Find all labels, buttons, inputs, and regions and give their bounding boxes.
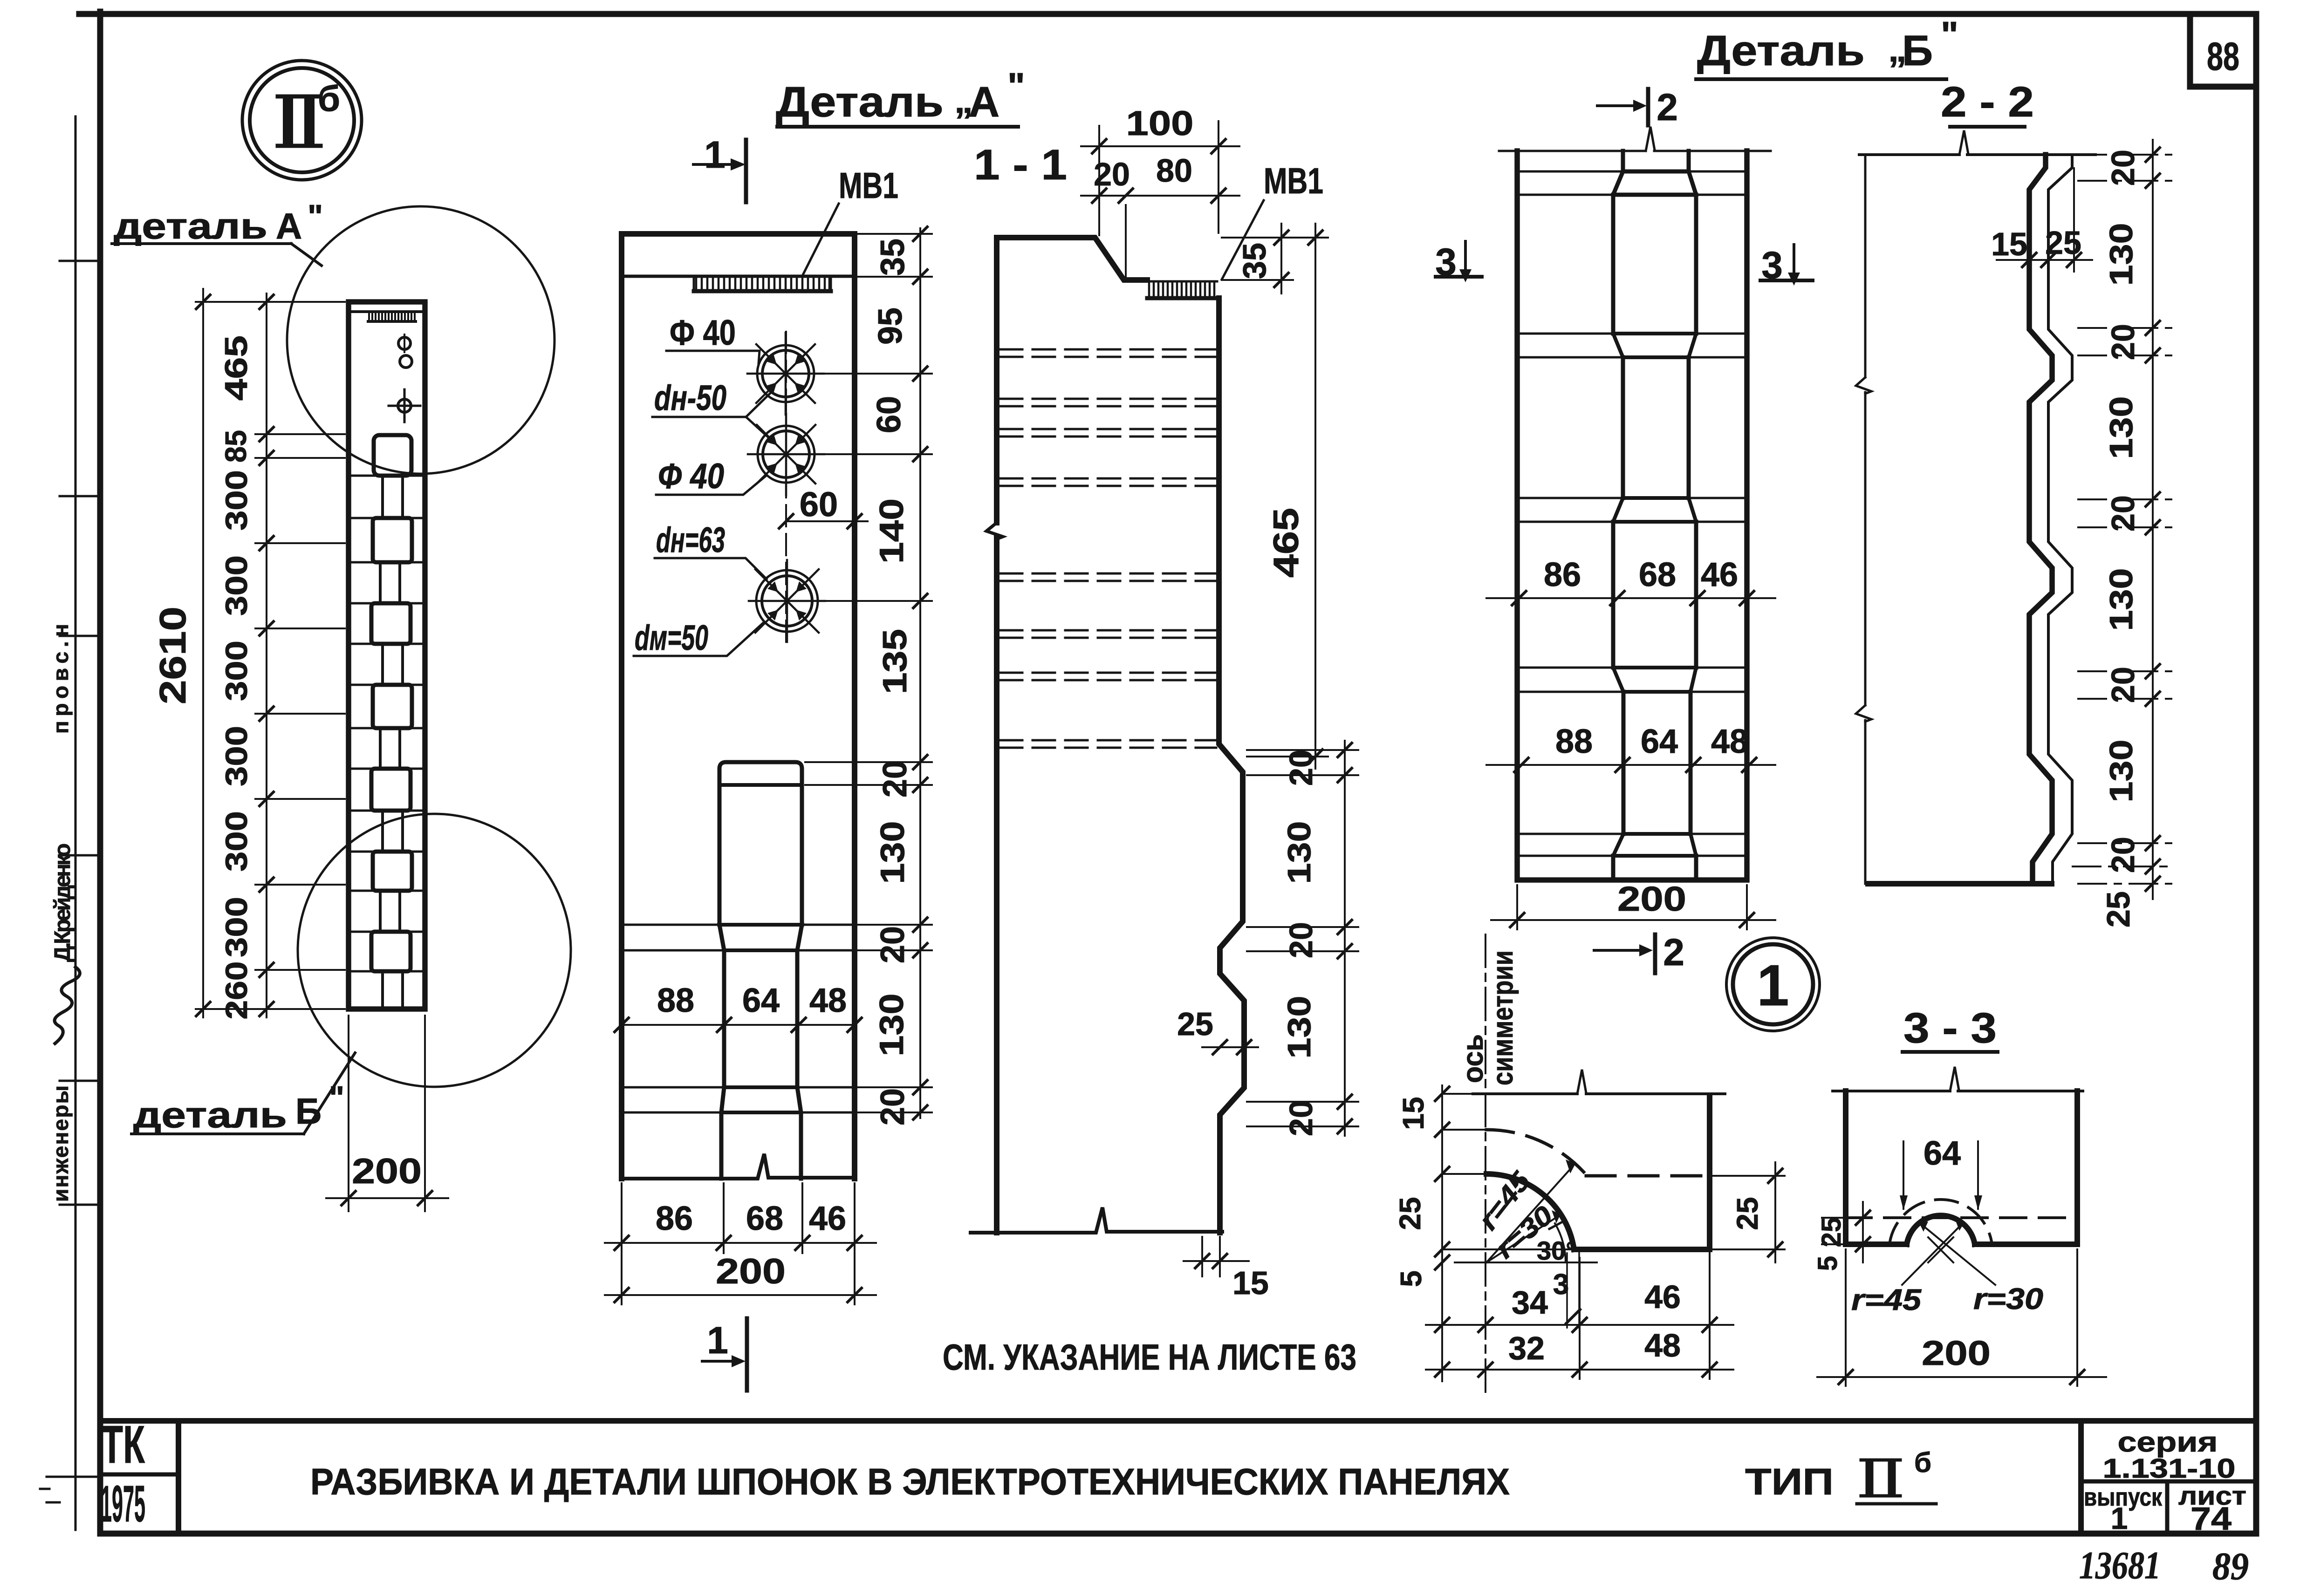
svg-text:15: 15 [1991, 226, 2027, 262]
dimension 60 hole offset [779, 485, 868, 528]
svg-text:300: 300 [219, 726, 253, 786]
svg-text:20: 20 [1094, 156, 1130, 192]
svg-text:80: 80 [1156, 152, 1192, 189]
node circle 1 [1726, 938, 1820, 1031]
svg-text:20: 20 [1283, 750, 1319, 786]
detail B key stubs and chamfers top [1613, 151, 1696, 195]
dimension 15 bottom [1184, 1237, 1269, 1301]
svg-text:Д.Крейденко: Д.Крейденко [50, 843, 75, 962]
svg-text:1: 1 [707, 1319, 728, 1362]
svg-text:20: 20 [2105, 667, 2141, 703]
svg-text:74: 74 [2190, 1501, 2232, 1537]
section 2-2 key profile inner line [2048, 155, 2072, 884]
svg-text:300: 300 [219, 641, 253, 701]
svg-text:88: 88 [1555, 723, 1593, 760]
svg-text:86: 86 [1544, 556, 1581, 593]
svg-text:15: 15 [1396, 1097, 1430, 1130]
svg-text:ТК: ТК [101, 1415, 145, 1474]
corner detail bottom dimension 32 48 [1426, 1327, 1733, 1377]
title block TK cell [100, 1415, 178, 1534]
svg-text:1.131-10: 1.131-10 [2103, 1453, 2236, 1484]
svg-text:Ф 40: Ф 40 [670, 313, 736, 353]
label деталь Б with leader [131, 1053, 355, 1135]
svg-text:": " [1941, 14, 1958, 55]
section 3-3 hidden dashed line [1846, 1216, 2077, 1219]
corner detail right dimension 25 [1712, 1162, 1785, 1262]
svg-text:15: 15 [1232, 1265, 1269, 1301]
svg-text:25: 25 [1393, 1197, 1427, 1230]
handwritten inventory number 13681 [2079, 1544, 2161, 1587]
svg-text:5: 5 [1394, 1270, 1428, 1287]
dimension extension lines right of detail A [805, 234, 932, 1112]
handwritten page number 89 [2212, 1545, 2249, 1588]
svg-text:200: 200 [1922, 1334, 1991, 1372]
svg-text:1: 1 [2111, 1501, 2128, 1535]
svg-text:130: 130 [2103, 568, 2139, 631]
svg-text:5: 5 [1813, 1256, 1843, 1271]
section 2-2 bottom edge [1868, 881, 2052, 887]
svg-text:ТИП: ТИП [1745, 1461, 1834, 1502]
svg-text:25: 25 [2045, 225, 2081, 261]
label dн=63 [655, 520, 767, 579]
svg-text:dн=63: dн=63 [656, 520, 725, 560]
svg-text:48: 48 [809, 982, 847, 1019]
section 3-3 top edge with break [1833, 1067, 2083, 1091]
corner detail key face arc r30 [1486, 1174, 1574, 1249]
left margin handwritten text ИНЖЕНЕРЫ [48, 1085, 73, 1202]
key row first rounded key [374, 435, 411, 476]
svg-text:МВ1: МВ1 [839, 165, 898, 206]
svg-text:60: 60 [870, 396, 908, 433]
section mark 1 top [693, 134, 746, 202]
section title 3-3 [1903, 1004, 1998, 1052]
corner detail horizontal ray and 30deg angle [1455, 1222, 1597, 1265]
corner detail hidden dashed edge [1586, 1174, 1710, 1178]
svg-text:48: 48 [1644, 1327, 1681, 1364]
panel elevation survey point symbol [389, 389, 420, 422]
left margin handwritten ПРОВЕРИЛ [48, 617, 73, 734]
sheet frame top border [79, 11, 2256, 17]
label MB1 with leader [802, 165, 898, 276]
label деталь А with leader [112, 198, 323, 266]
detail A dimension chain 35-95-60-140-135-20-130-20-130-20 [870, 227, 927, 1125]
overall dimension line 2610 [152, 289, 210, 1017]
svg-text:89: 89 [2212, 1545, 2249, 1588]
section 1-1 outline with rebate [971, 238, 1222, 1233]
svg-text:20: 20 [2105, 495, 2141, 532]
section mark 2 bottom [1594, 931, 1684, 974]
section 3-3 arc center cross [1928, 1237, 1953, 1262]
svg-text:64: 64 [1641, 723, 1678, 760]
svg-text:2: 2 [1663, 931, 1684, 974]
corner detail dimension 3 [1553, 1252, 1580, 1328]
corner detail radius ray r30 [1486, 1200, 1561, 1264]
dimension 465 section [1222, 224, 1328, 769]
svg-text:„: „ [954, 79, 973, 121]
section 1-1 hidden conduit lines [1000, 349, 1216, 748]
svg-text:200: 200 [716, 1252, 786, 1291]
detail B band lines [1517, 171, 1747, 856]
svg-text:130: 130 [1281, 996, 1317, 1059]
svg-text:200: 200 [352, 1152, 422, 1191]
svg-text:Деталь: Деталь [776, 78, 944, 126]
detail B key K4 narrow [1613, 692, 1696, 856]
title block series box [2081, 1421, 2256, 1537]
detail B dimension 88-64-48 [1486, 723, 1775, 772]
svg-text:1 - 1: 1 - 1 [974, 141, 1067, 189]
corner detail key face bottom edge [1574, 1247, 1710, 1252]
section mark 2 top [1597, 86, 1678, 129]
panel elevation outline [349, 302, 425, 1009]
detail A key outline [719, 762, 802, 1179]
corner detail bottom dimension 34 46 [1426, 1253, 1733, 1379]
sheet frame bottom border [100, 1531, 2256, 1537]
left margin signature scribble [55, 967, 80, 1044]
svg-text:25: 25 [1177, 1006, 1213, 1042]
svg-text:300: 300 [219, 897, 253, 957]
section 2-2 right dimension chain [2073, 140, 2171, 928]
key pattern row lines [349, 476, 425, 971]
detail B key K3 wide [1613, 522, 1696, 692]
svg-text:46: 46 [1644, 1279, 1681, 1315]
section title 1-1 [974, 141, 1067, 189]
svg-text:МВ1: МВ1 [1264, 160, 1323, 201]
sheet frame left border [97, 12, 103, 1534]
label Ф40 upper [666, 313, 760, 363]
detail B dimension 200 [1491, 880, 1775, 929]
symmetry axis line [1485, 934, 1486, 1393]
section 3-3 left dimensions 25 5 [1813, 1202, 1870, 1271]
detail B key K5 bottom stub [1613, 856, 1696, 880]
section mark 3 left [1435, 241, 1482, 283]
svg-text:25: 25 [1816, 1217, 1847, 1248]
svg-text:465: 465 [1266, 508, 1306, 578]
svg-text:": " [1007, 65, 1025, 107]
detail B key K1 wide [1613, 195, 1696, 357]
symmetry axis label [1457, 950, 1519, 1085]
svg-text:130: 130 [2103, 396, 2139, 459]
detail B key K2 narrow [1613, 357, 1696, 522]
svg-text:130: 130 [874, 821, 911, 884]
svg-text:„: „ [1888, 28, 1907, 69]
detail circle A [287, 206, 554, 474]
svg-text:25: 25 [2100, 891, 2136, 928]
svg-text:dм=50: dм=50 [635, 618, 708, 658]
corner detail dashed arc r45 [1486, 1130, 1587, 1176]
detail A top strip line [622, 275, 855, 278]
section 3-3 bottom dimension 200 [1817, 1249, 2106, 1386]
svg-text:1975: 1975 [101, 1475, 145, 1533]
svg-text:20: 20 [876, 760, 914, 798]
svg-text:r=45: r=45 [1851, 1283, 1922, 1316]
svg-text:100: 100 [1126, 104, 1194, 143]
corner detail top edge with break [1473, 1070, 1725, 1094]
left margin handwritten name Д.Крейденко [50, 843, 75, 962]
section 2-2 panel rear face line with breaks [1856, 155, 1871, 884]
title block band top line [100, 1418, 2256, 1424]
section 3-3 dimension 64 [1900, 1135, 1982, 1210]
left margin fold line [40, 116, 100, 1530]
svg-text:": " [329, 1079, 344, 1116]
svg-text:46: 46 [809, 1200, 846, 1237]
dimension 35 [1222, 224, 1293, 293]
section 2-2 key profile outer line [2029, 155, 2052, 884]
svg-text:34: 34 [1512, 1284, 1548, 1321]
svg-text:95: 95 [872, 307, 909, 345]
svg-text:А: А [276, 205, 302, 246]
hole circle 3 d63 [749, 560, 825, 642]
sheet number box 88 [2190, 17, 2253, 87]
svg-text:465: 465 [219, 335, 254, 401]
label Ф40 lower [656, 457, 766, 496]
svg-text:": " [308, 198, 323, 234]
svg-text:200: 200 [1617, 880, 1686, 918]
dimension 20 80 [1081, 152, 1239, 280]
svg-text:п р о в с . н: п р о в с . н [48, 617, 73, 734]
svg-text:135: 135 [876, 629, 914, 694]
svg-text:деталь: деталь [133, 1094, 287, 1135]
hole circle 1 d40 [747, 333, 824, 415]
dimension 15 25 of section 2-2 [1991, 168, 2092, 272]
detail A MB1 plate hatched [694, 278, 831, 291]
svg-text:68: 68 [1639, 556, 1676, 593]
svg-text:130: 130 [1281, 821, 1317, 884]
svg-text:85: 85 [219, 430, 253, 463]
svg-text:ось: ось [1457, 1034, 1489, 1083]
section 3-3 label r30 with leader [1919, 1221, 2043, 1316]
svg-text:2: 2 [1657, 86, 1678, 129]
svg-text:r=30: r=30 [1973, 1282, 2043, 1316]
hole centerline [785, 332, 787, 648]
section 1-1 MB1 plate hatched [1147, 281, 1219, 298]
svg-text:20: 20 [2105, 837, 2141, 873]
svg-text:300: 300 [219, 811, 253, 872]
panel elevation top strip line [349, 310, 425, 313]
svg-text:Деталь: Деталь [1697, 27, 1865, 75]
dimension extension lines left of panel [196, 302, 345, 1009]
section 1-1 right edge key profile [1219, 298, 1244, 1233]
label dм=50 [634, 618, 763, 658]
svg-text:140: 140 [873, 498, 910, 564]
svg-text:1: 1 [1757, 954, 1789, 1018]
title block main title text [310, 1447, 1936, 1504]
corner detail left chain 15 25 5 [1393, 1085, 1570, 1381]
panel elevation lifting hole circles [398, 334, 412, 368]
section 3-3 key arch solid r30 [1907, 1215, 1975, 1244]
svg-text:64: 64 [742, 982, 780, 1019]
svg-text:серия: серия [2118, 1426, 2218, 1458]
detail A panel outline [622, 234, 855, 1179]
svg-text:инженеры: инженеры [48, 1085, 73, 1202]
section 2-2 top edge with break [1859, 130, 2095, 155]
section title 2-2 [1941, 78, 2034, 127]
svg-text:б: б [1914, 1447, 1931, 1478]
section 3-3 key arch dashed r45 [1889, 1200, 1992, 1244]
detail B panel outline [1517, 151, 1747, 880]
svg-text:88: 88 [657, 982, 694, 1019]
detail A internal dimension 88-64-48 [615, 982, 862, 1032]
svg-text:130: 130 [2103, 223, 2139, 286]
svg-text:2610: 2610 [152, 607, 193, 704]
svg-text:35: 35 [1236, 243, 1273, 279]
label MB1 section with leader [1222, 160, 1323, 280]
svg-text:130: 130 [2103, 740, 2139, 803]
svg-text:20: 20 [2105, 324, 2141, 360]
svg-text:симметрии: симметрии [1487, 950, 1519, 1085]
svg-text:86: 86 [656, 1200, 693, 1237]
section 1-1 key chain 20-130-20-130-20 [1247, 741, 1358, 1136]
svg-text:3 - 3: 3 - 3 [1903, 1004, 1997, 1052]
corner detail right edge [1707, 1095, 1712, 1248]
svg-text:20: 20 [1283, 922, 1319, 958]
note text see sheet 63 [943, 1337, 1356, 1378]
svg-text:46: 46 [1701, 556, 1738, 593]
svg-text:СМ. УКАЗАНИЕ НА ЛИСТЕ 63: СМ. УКАЗАНИЕ НА ЛИСТЕ 63 [943, 1337, 1356, 1378]
svg-text:260: 260 [219, 962, 253, 1020]
type mark circle IIб [242, 61, 362, 180]
svg-text:60: 60 [800, 485, 838, 524]
dimension 25 key depth [1177, 1006, 1258, 1054]
svg-text:25: 25 [1731, 1197, 1764, 1230]
dimension chain line segments 465-85-300x6-260 [219, 293, 274, 1020]
svg-text:РАЗБИВКА И ДЕТАЛИ ШПОНОК В Э: РАЗБИВКА И ДЕТАЛИ ШПОНОК В ЭЛЕКТРОТЕХНИЧ… [310, 1461, 1510, 1502]
section mark 3 right [1760, 244, 1813, 286]
detail A bottom dimension 200 [605, 1252, 876, 1302]
detail A band lines [622, 925, 855, 1112]
svg-text:2 - 2: 2 - 2 [1941, 78, 2034, 126]
svg-text:48: 48 [1711, 723, 1748, 760]
svg-text:1: 1 [704, 134, 726, 176]
hole circle 2 d40 [748, 413, 824, 495]
svg-text:68: 68 [746, 1200, 783, 1237]
svg-text:20: 20 [874, 926, 911, 963]
svg-text:88: 88 [2207, 34, 2239, 78]
svg-text:300: 300 [219, 555, 253, 616]
corner detail radius ray r45 [1473, 1159, 1575, 1262]
svg-text:20: 20 [874, 1088, 911, 1125]
svg-text:130: 130 [873, 994, 910, 1057]
detail B top edge with break [1499, 127, 1771, 151]
svg-text:dн-50: dн-50 [654, 378, 726, 418]
narrow joint verticals [380, 476, 403, 1009]
title Деталь Б [1696, 14, 1958, 79]
detail circle Б [298, 814, 571, 1087]
detail A bottom dimension 86-68-46 [605, 1183, 876, 1304]
detail B dimension 86-68-46 [1486, 556, 1775, 605]
svg-text:64: 64 [1924, 1135, 1961, 1172]
svg-text:деталь: деталь [114, 205, 267, 246]
svg-text:20: 20 [2105, 150, 2141, 186]
svg-text:30°: 30° [1537, 1236, 1576, 1265]
svg-text:35: 35 [874, 239, 911, 276]
section 3-3 outline [1846, 1091, 2077, 1244]
label dн=50 [652, 378, 770, 437]
bottom width dimension 200 of elevation [326, 1016, 448, 1211]
dimension 100 top of section [1081, 104, 1239, 235]
title Деталь А [776, 65, 1025, 127]
svg-text:32: 32 [1508, 1330, 1545, 1366]
svg-text:300: 300 [219, 470, 253, 531]
svg-text:20: 20 [1283, 1100, 1319, 1136]
section mark 1 bottom [702, 1318, 747, 1391]
svg-text:13681: 13681 [2079, 1544, 2161, 1587]
key blocks thick outlines [371, 518, 412, 971]
sheet frame right border [2253, 14, 2259, 1534]
svg-text:Ф 40: Ф 40 [658, 457, 724, 496]
section 3-3 label r45 with leader [1851, 1220, 1965, 1316]
panel elevation MB1 plate hatch [368, 313, 416, 321]
svg-text:б: б [318, 78, 340, 119]
svg-text:А: А [969, 78, 999, 126]
